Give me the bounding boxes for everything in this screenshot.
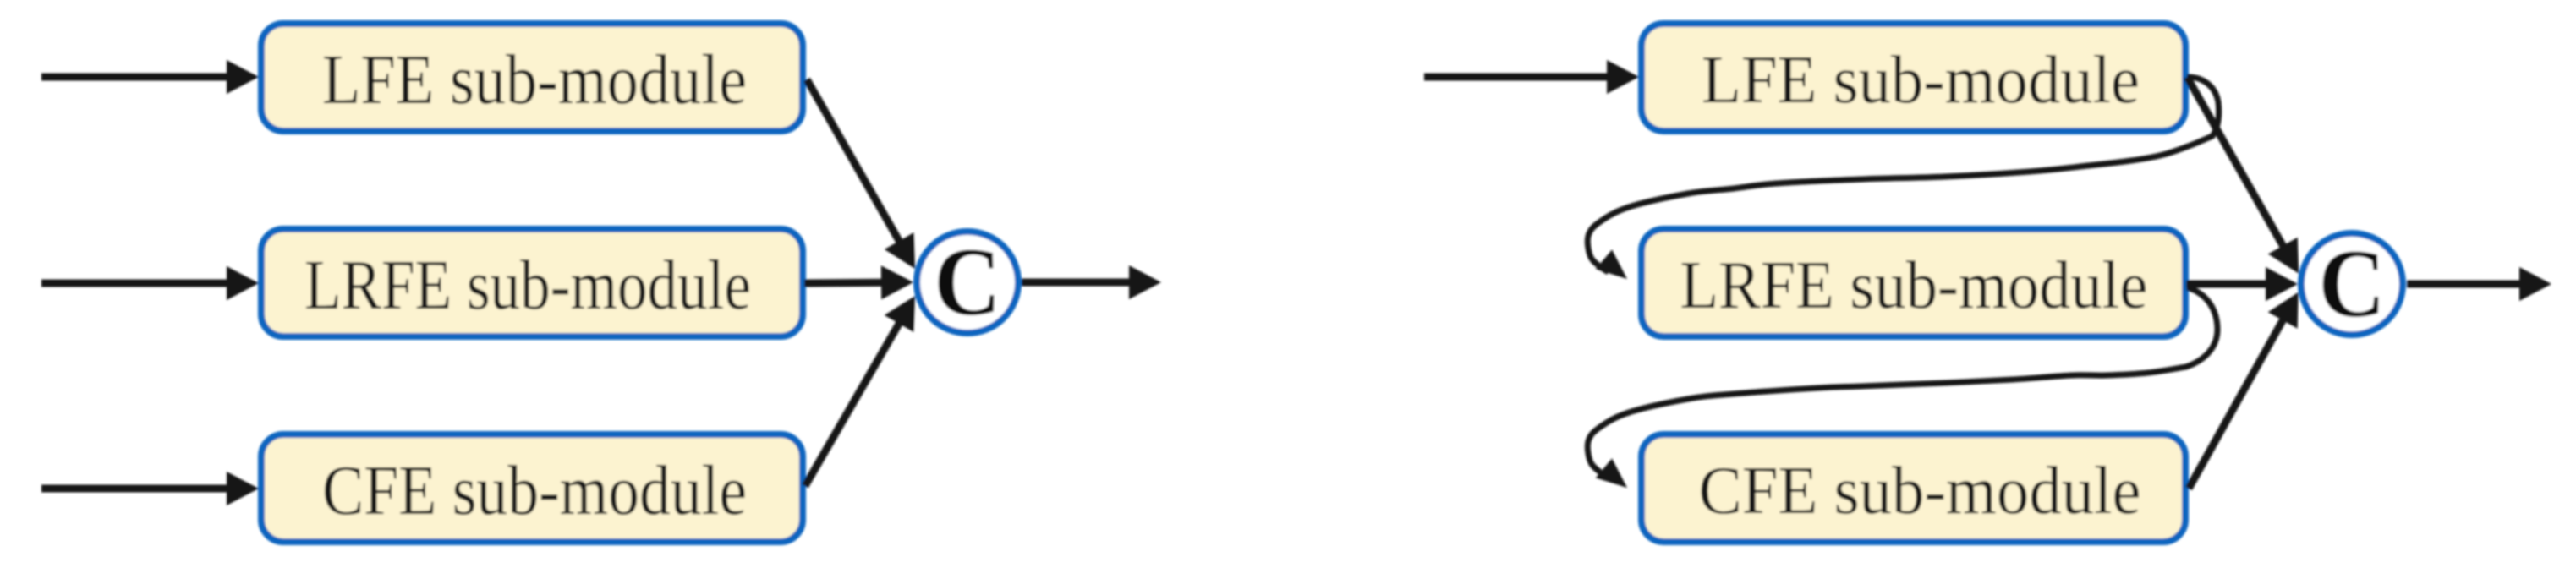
horizontal arrow LRFE to concat (right) (2186, 267, 2298, 301)
svg-text:CFE sub-module: CFE sub-module (1699, 454, 2141, 528)
concat circle C (left) (917, 229, 1018, 336)
curved skip connector LRFE to CFE (right) (1587, 287, 2217, 488)
output arrow from concat (right) (2407, 267, 2551, 301)
diagonal arrow CFE to concat (right) (2189, 292, 2299, 489)
svg-text:C: C (934, 229, 1000, 336)
box CFE sub-module (right) (1642, 434, 2185, 542)
concat circle C (right) (2301, 231, 2403, 338)
output arrow from concat (left) (1022, 265, 1161, 299)
input arrow to LRFE (left) (41, 266, 259, 300)
horizontal arrow LRFE to concat (left) (804, 265, 913, 299)
input arrow to CFE (left) (41, 472, 259, 505)
box LRFE sub-module (left) (261, 229, 803, 336)
curved skip connector LFE to LRFE (right) (1587, 77, 2218, 279)
input arrow to LFE (right) (1424, 60, 1639, 94)
input arrow to LFE (left) (41, 60, 259, 94)
svg-text:C: C (2318, 231, 2385, 338)
svg-text:LFE sub-module: LFE sub-module (1702, 43, 2140, 117)
diagonal arrow CFE to concat (left) (805, 296, 915, 486)
box LRFE sub-module (right) (1642, 229, 2185, 336)
svg-text:CFE sub-module: CFE sub-module (322, 451, 747, 530)
svg-text:LRFE sub-module: LRFE sub-module (1680, 248, 2148, 323)
box LFE sub-module (right) (1642, 24, 2185, 131)
box LFE sub-module (left) (261, 24, 803, 131)
svg-text:LFE sub-module: LFE sub-module (322, 41, 747, 119)
diagonal arrow LFE to concat (left) (807, 79, 915, 269)
diagonal arrow LFE to concat (right) (2187, 77, 2299, 274)
box CFE sub-module (left) (261, 434, 803, 542)
svg-text:LRFE sub-module: LRFE sub-module (304, 246, 751, 325)
